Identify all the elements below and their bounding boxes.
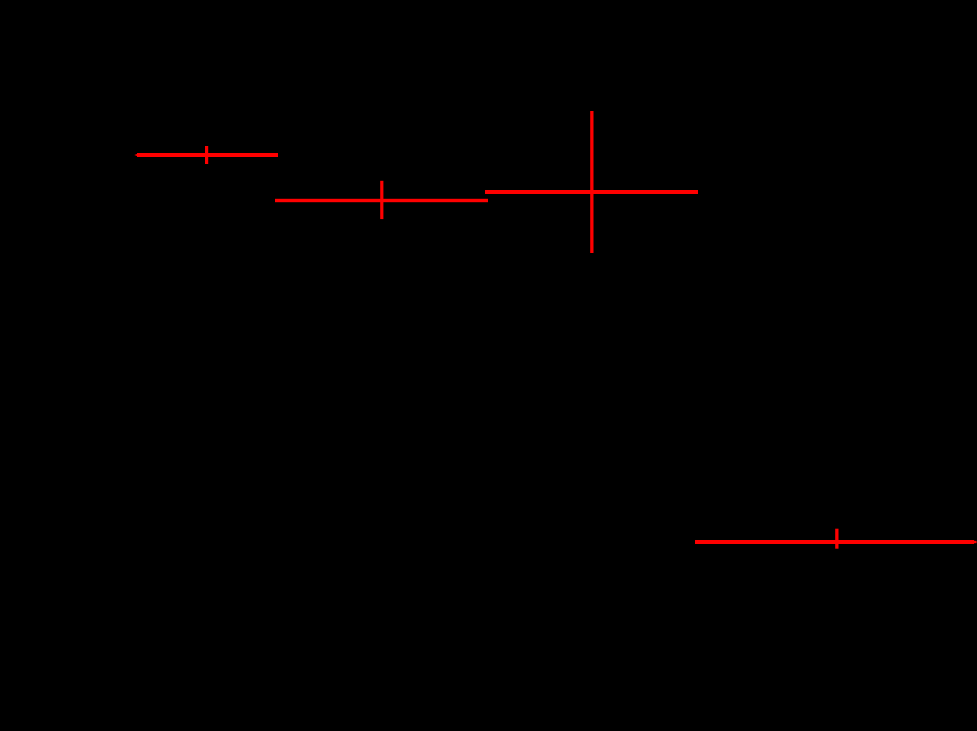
data point 2 x-error bar	[275, 199, 488, 202]
data point 3 x-error bar	[485, 190, 698, 194]
data point 3 y-error bar	[590, 111, 593, 253]
data point 4 x-error bar	[695, 540, 977, 544]
data point 4 y-error bar	[835, 529, 838, 549]
data point 1 x-error bar	[134, 153, 278, 157]
data point 2 y-error bar	[380, 181, 383, 219]
data point 1 y-error bar	[205, 146, 208, 164]
